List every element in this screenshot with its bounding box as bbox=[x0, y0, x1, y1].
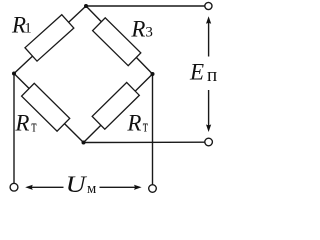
svg-text:т: т bbox=[31, 116, 37, 135]
wire bridge arm bottom-right (RT) bbox=[84, 74, 153, 143]
resistor RT left body bbox=[22, 83, 70, 131]
wire bridge arm top-left (R1) bbox=[14, 6, 86, 74]
resistor R1 body bbox=[25, 15, 74, 61]
svg-text:п: п bbox=[207, 65, 217, 86]
svg-text:R: R bbox=[130, 16, 145, 41]
node bottom junction bbox=[82, 141, 86, 145]
wire bottom node to Ep- terminal bbox=[84, 141, 205, 143]
Ep arrow line lower segment bbox=[208, 90, 210, 126]
wire bridge arm top-right (R3) bbox=[86, 6, 153, 74]
resistor RT right body bbox=[92, 82, 139, 129]
Um arrowhead left bbox=[25, 185, 33, 190]
node top junction bbox=[84, 4, 88, 8]
svg-text:E: E bbox=[189, 60, 204, 85]
node left junction bbox=[12, 72, 16, 76]
resistor R3 body bbox=[93, 18, 141, 66]
svg-text:U: U bbox=[66, 172, 88, 197]
svg-text:3: 3 bbox=[145, 24, 153, 40]
Ep arrowhead up bbox=[206, 16, 211, 24]
svg-text:R: R bbox=[14, 110, 29, 135]
node right junction bbox=[151, 72, 155, 76]
wire left node down to Um left terminal bbox=[13, 74, 15, 184]
terminal Um left bbox=[10, 183, 18, 191]
terminal Ep- bottom right bbox=[205, 138, 213, 146]
terminal Ep+ top right bbox=[205, 2, 212, 9]
terminal Um right bbox=[149, 185, 157, 193]
wire right node down to Um right terminal bbox=[152, 74, 154, 185]
Um arrowhead right bbox=[134, 185, 142, 190]
svg-text:1: 1 bbox=[24, 20, 32, 36]
Ep arrow line upper segment bbox=[208, 22, 210, 57]
Ep arrowhead down bbox=[206, 124, 211, 132]
Um arrow line right segment bbox=[100, 186, 137, 188]
svg-text:м: м bbox=[87, 181, 97, 197]
svg-text:т: т bbox=[143, 116, 149, 135]
Um arrow line left segment bbox=[30, 186, 64, 188]
wire top node to Ep+ terminal bbox=[86, 5, 205, 7]
wire bridge arm bottom-left (RT) bbox=[14, 74, 84, 143]
svg-text:R: R bbox=[126, 110, 141, 135]
